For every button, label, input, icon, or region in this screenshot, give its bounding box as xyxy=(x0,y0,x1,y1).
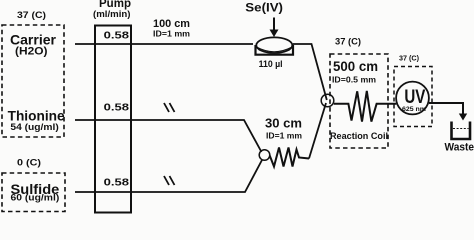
wire thionine line xyxy=(75,120,262,152)
svg-text:37 (C): 37 (C) xyxy=(399,54,420,63)
wire coil to junction2 xyxy=(309,103,326,159)
svg-text:ID=0.5 mm: ID=0.5 mm xyxy=(332,74,376,84)
wire valve to junction2 xyxy=(293,44,327,100)
break mark sulfide line xyxy=(164,176,175,185)
reservoir box sulfide (0C bath, dashed) xyxy=(2,173,65,212)
pump P1 xyxy=(93,0,131,212)
waste beaker xyxy=(452,122,471,140)
svg-text:0.58: 0.58 xyxy=(104,177,130,189)
wire UV to waste xyxy=(429,103,463,115)
junction node 2 (carrier confluence) xyxy=(321,94,334,107)
svg-text:54 (ug/ml): 54 (ug/ml) xyxy=(10,122,58,132)
svg-text:UV: UV xyxy=(404,87,425,108)
arrow injection xyxy=(273,18,275,31)
svg-text:ID=1 mm: ID=1 mm xyxy=(266,131,302,141)
break mark thionine line xyxy=(164,103,175,112)
arrow to waste xyxy=(459,114,467,121)
svg-text:625 nm: 625 nm xyxy=(402,107,426,113)
coil 500cm (zigzag) xyxy=(334,91,397,122)
detector UV xyxy=(396,82,429,115)
detector thermostat box (dashed) xyxy=(394,67,432,127)
svg-text:ID=1 mm: ID=1 mm xyxy=(153,28,190,38)
reaction coil thermostat box (dashed) xyxy=(330,54,388,148)
svg-text:60 (ug/ml): 60 (ug/ml) xyxy=(11,192,60,202)
svg-text:500 cm: 500 cm xyxy=(333,59,378,74)
svg-text:Reaction Coil: Reaction Coil xyxy=(330,131,388,141)
svg-text:37 (C): 37 (C) xyxy=(335,37,361,47)
svg-text:Waste: Waste xyxy=(445,141,474,153)
wire sulfide line xyxy=(75,160,262,192)
waste liquid level (dashed) xyxy=(453,128,469,130)
injection valve V1 (sample loop) xyxy=(256,37,294,54)
reservoir box carrier+thionine (37C bath, dashed) xyxy=(2,25,64,137)
svg-text:(ml/min): (ml/min) xyxy=(93,9,131,20)
svg-text:Se(IV): Se(IV) xyxy=(245,1,283,15)
coil 30cm (zigzag) xyxy=(270,148,309,167)
svg-text:0 (C): 0 (C) xyxy=(17,158,41,169)
svg-text:0.58: 0.58 xyxy=(104,30,130,42)
svg-text:37 (C): 37 (C) xyxy=(17,10,46,21)
junction node 1 (thionine+sulfide confluence) xyxy=(259,150,270,161)
svg-text:0.58: 0.58 xyxy=(104,101,130,113)
svg-text:(H2O): (H2O) xyxy=(15,46,48,58)
svg-text:30 cm: 30 cm xyxy=(265,117,302,131)
svg-text:110 µl: 110 µl xyxy=(259,59,283,70)
wire carrier line to valve xyxy=(75,43,253,45)
